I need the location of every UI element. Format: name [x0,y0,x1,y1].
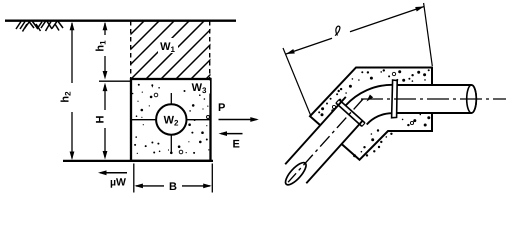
anchor block outline [310,68,432,160]
pipe centerline horizontal [132,119,210,121]
label W3 [189,81,210,96]
horizontal pipe centerline [361,98,506,100]
thrust block outline [131,79,211,161]
pipe elbow [346,85,393,125]
W1 right dashed edge [209,21,211,78]
soil hatching [16,21,63,31]
force E arrow [219,131,243,150]
svg-text:P: P [218,102,225,114]
flow arrow at bend [367,95,374,102]
concrete stipple left block [132,82,210,154]
horizontal pipe [397,85,476,113]
base line [63,160,213,162]
dimension h1 [95,22,108,80]
hatched soil prism W1 [55,5,280,95]
pipe circle [156,104,186,134]
flange on inclined pipe [336,100,365,127]
friction force muW [98,170,127,188]
dimension h2 [60,22,75,160]
ground surface line [5,20,236,22]
svg-text:H: H [95,115,107,123]
inclined pipe centerline [288,99,363,182]
dimension B [134,164,213,194]
pipe centerline vertical [170,93,172,154]
svg-text:B: B [169,181,177,193]
label W1 [158,38,178,54]
inclined pipe [282,97,366,188]
svg-text:µW: µW [110,177,126,189]
W1 left dashed edge [130,21,132,78]
dimension H [95,83,108,160]
flange on horizontal pipe [392,80,398,118]
concrete stipple right block [318,69,430,157]
force P arrow [218,102,259,122]
svg-text:E: E [233,139,240,151]
extension line block top [99,80,131,82]
dimension l (length of block) [283,3,432,115]
